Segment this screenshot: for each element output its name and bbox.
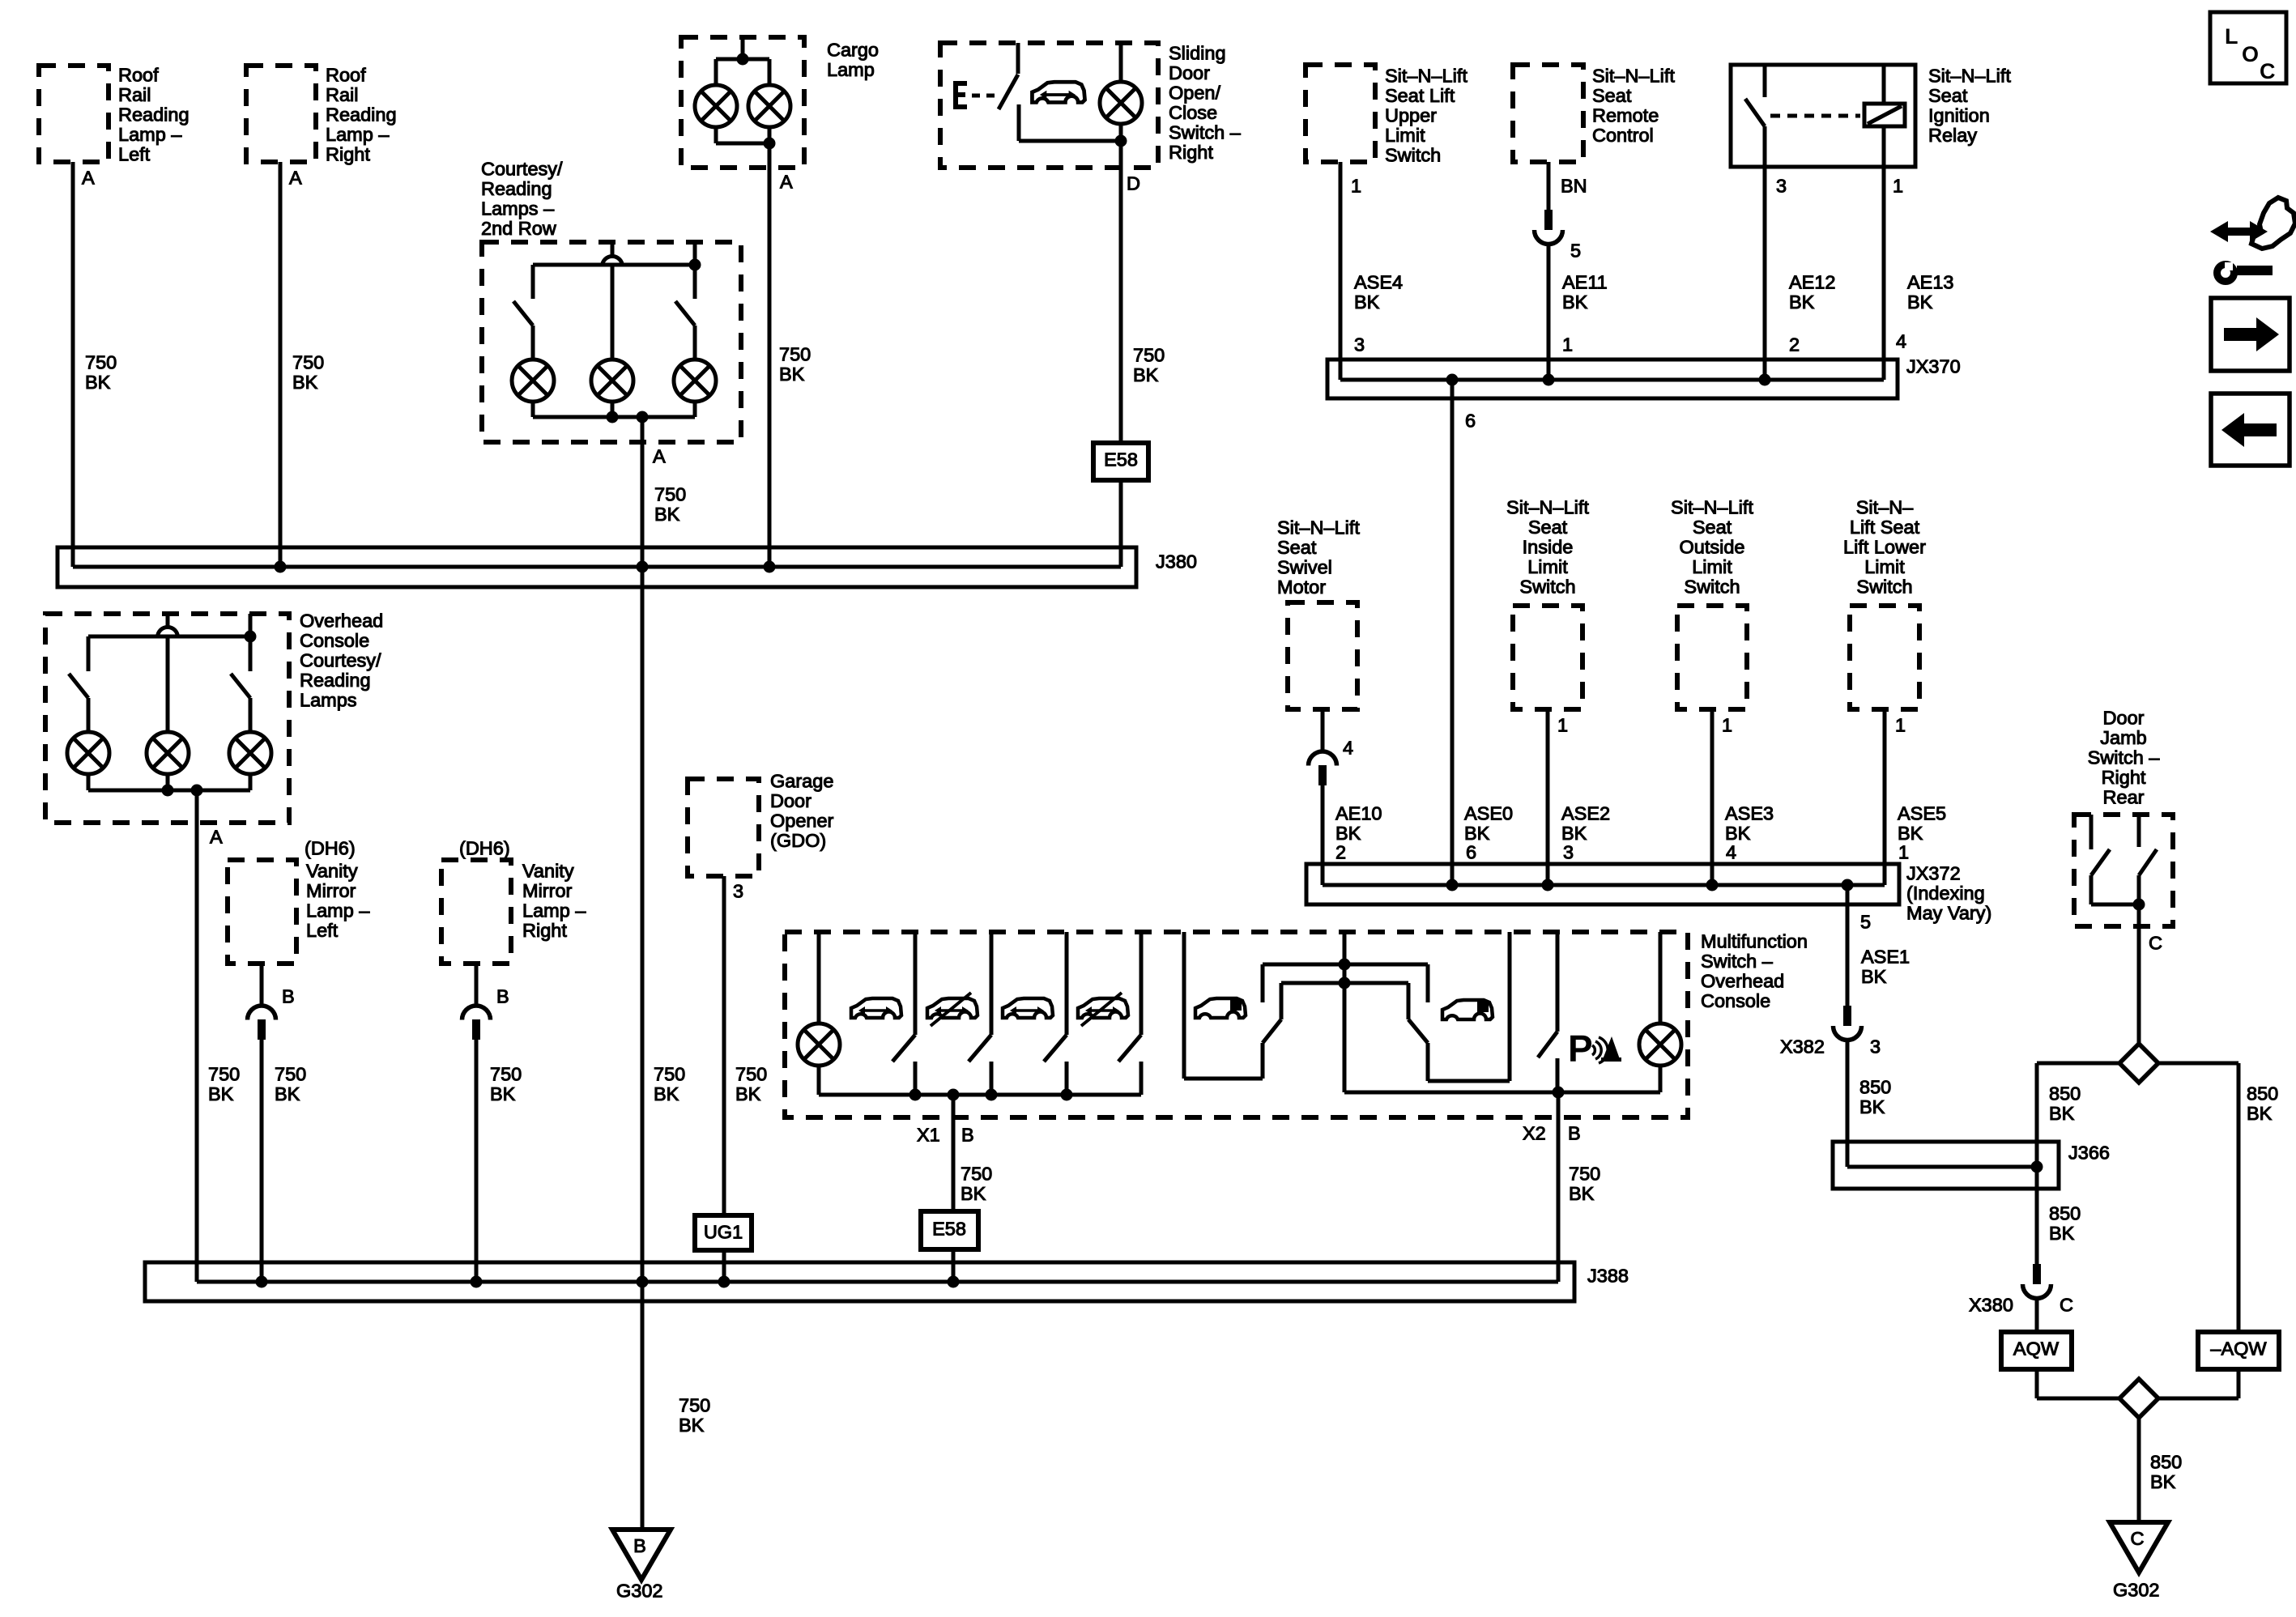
junction J388 vanity-right (471, 1276, 483, 1288)
wire overhead console A to J388 (195, 790, 199, 1282)
mf switch1 blade (892, 1035, 915, 1062)
overhead console box (45, 614, 289, 823)
connector B vanity-left (248, 1006, 276, 1040)
door jamb left bottom lead (2089, 875, 2094, 904)
wire J380 to J388 ground trunk (641, 567, 645, 1282)
connector X380 (2023, 1264, 2051, 1299)
junction J366 (2031, 1161, 2043, 1173)
roof rail reading lamp left box (39, 66, 109, 162)
2nd row center lamp lead (611, 266, 615, 360)
wire 6 JX370 to JX372 (1450, 380, 1455, 885)
2nd row lamp left bottom lead (531, 402, 535, 417)
sliding door car icon (1032, 82, 1084, 102)
sliding door switch box (940, 43, 1158, 168)
overhead console feed stub (166, 614, 170, 627)
icon prev-page arrow (2221, 413, 2277, 447)
junction mf center rail X2 (1553, 1087, 1565, 1099)
connector X382 (1834, 1006, 1862, 1040)
vanity mirror lamp right box (441, 860, 511, 964)
2nd row lamp center bottom lead (611, 402, 615, 417)
junction cargo bottom (764, 138, 776, 150)
fuse UG1 box (695, 1215, 752, 1250)
wire vanity-right to J388 (475, 1040, 479, 1282)
svg-text:1: 1 (1351, 176, 1361, 197)
junction bridge B center (1339, 977, 1351, 989)
mf switch4 blade (1118, 1035, 1141, 1062)
svg-text:Courtesy/ReadingLamps –2nd Row: Courtesy/ReadingLamps –2nd Row (481, 159, 563, 240)
cargo lamp left (695, 85, 737, 127)
mf switch1 bottom lead (914, 1062, 918, 1095)
wire AQW down (2035, 1369, 2039, 1398)
junction overhead bottom center (162, 785, 174, 797)
svg-text:2: 2 (1789, 334, 1800, 355)
svg-text:A: A (210, 827, 223, 848)
junction mf rail X1 (948, 1089, 960, 1101)
ground symbol B (612, 1530, 671, 1580)
wire vanity-left to J388 (260, 1040, 264, 1282)
wire E58 lower to J388 (952, 1249, 956, 1282)
svg-text:A: A (82, 168, 95, 189)
2nd row left switch bottom lead (531, 326, 535, 360)
wire J366 to X380 (2035, 1167, 2039, 1264)
junction mf rail sw3 (1061, 1089, 1073, 1101)
sliding door lamp bottom lead (1119, 124, 1123, 141)
swivel motor box (1288, 602, 1357, 709)
svg-text:J388: J388 (1587, 1266, 1629, 1287)
2nd row lamp right bottom lead (693, 402, 697, 417)
splice pack J388 outline (145, 1262, 1574, 1301)
junction J388 vanity-left (256, 1276, 268, 1288)
door jamb left top lead (2089, 815, 2094, 849)
wire vanity-right upper (475, 964, 479, 1006)
sliding door lamp top lead (1119, 43, 1123, 81)
svg-text:UG1: UG1 (704, 1222, 743, 1243)
2nd row right branch top lead (693, 242, 697, 299)
wire ASE3 to JX372 (1710, 709, 1715, 885)
door jamb right bottom lead (2137, 875, 2141, 904)
2nd row lamp left (512, 360, 554, 402)
wire diamond1 left branch to J366 (2035, 1063, 2039, 1167)
wire X2 to J388 (1557, 1092, 1561, 1282)
multifunction switch box (785, 932, 1688, 1117)
overhead console crossover hump (158, 628, 178, 638)
svg-text:B: B (1568, 1123, 1581, 1144)
svg-text:–AQW: –AQW (2210, 1338, 2267, 1360)
svg-text:5: 5 (1570, 240, 1581, 262)
sliding door switch blade (999, 74, 1018, 109)
wire cargo A to J380 (768, 143, 772, 567)
wire ASE5 to JX372 (1883, 709, 1887, 885)
mf right right-pole outer lead (1508, 932, 1512, 1081)
outside limit box (1677, 606, 1747, 709)
relay coil box (1864, 104, 1905, 126)
wire X1 to E58 (952, 1095, 956, 1211)
relay coil top lead (1882, 65, 1886, 104)
svg-text:3: 3 (733, 881, 743, 902)
2nd row lamp center (591, 360, 633, 402)
svg-text:1: 1 (1895, 715, 1906, 736)
mf switch4 bottom lead (1139, 1062, 1144, 1095)
junction 2nd row rail right (689, 259, 701, 271)
relay switch top lead (1763, 65, 1767, 97)
multifunction lamp left (798, 1023, 840, 1066)
fuse E58 lower box (921, 1211, 978, 1249)
junction 2nd row bottom center (607, 411, 619, 423)
wire AQW to diamond2 (2037, 1397, 2120, 1401)
wire ASE4 to JX370 (1339, 162, 1343, 380)
wire E58 to J380 (1119, 480, 1123, 567)
svg-text:X380: X380 (1969, 1295, 2013, 1316)
svg-text:G302: G302 (616, 1581, 663, 1602)
junction JX372 ASE0 (1446, 879, 1459, 891)
wire J388 to ground B (641, 1282, 645, 1530)
junction 2nd row bottom exit (637, 411, 649, 423)
svg-text:1: 1 (1893, 176, 1903, 197)
overhead left switch blade (69, 674, 88, 698)
junction JX372 ASE3 (1706, 879, 1719, 891)
overhead right switch bottom lead (249, 698, 253, 732)
mf chime switch bottom lead (1556, 1058, 1560, 1092)
wire vanity-left upper (260, 964, 264, 1006)
junction JX370 AE12 (1759, 374, 1771, 386)
mf switch3 top lead (1065, 932, 1069, 1035)
svg-text:4: 4 (1343, 738, 1353, 759)
splice pack J380 inner wire (73, 565, 1121, 569)
relay switch bottom lead (1763, 126, 1767, 167)
mf bridge B (1281, 981, 1408, 985)
svg-text:GarageDoorOpener(GDO): GarageDoorOpener(GDO) (770, 771, 834, 852)
2nd row right switch blade (675, 301, 695, 326)
icon prev-page box (2211, 394, 2290, 466)
overhead lamp right bottom lead (249, 774, 253, 790)
junction J388 trunk (637, 1276, 649, 1288)
sliding door dashed link (972, 94, 1001, 98)
cargo lamp right (748, 85, 790, 127)
connector B vanity-right (462, 1006, 491, 1040)
sliding door lamp (1100, 82, 1142, 124)
mf switch3 bottom lead (1065, 1062, 1069, 1095)
wire X380 to AQW (2035, 1299, 2039, 1332)
courtesy reading lamps 2nd row box (482, 242, 741, 442)
svg-text:J366: J366 (2068, 1143, 2110, 1164)
svg-text:JX370: JX370 (1906, 356, 1961, 377)
icon car adjust with wrench (2210, 198, 2295, 282)
cargo lamp left top lead (714, 59, 718, 85)
door jamb left blade (2091, 849, 2110, 875)
svg-text:G302: G302 (2113, 1580, 2160, 1601)
sliding door E symbol (953, 81, 967, 109)
svg-text:3: 3 (1870, 1036, 1881, 1057)
svg-text:(DH6): (DH6) (459, 838, 510, 859)
junction mf rail sw2 (986, 1089, 998, 1101)
relay coil bottom lead (1882, 126, 1886, 167)
door jamb bottom link (2091, 903, 2139, 907)
icon LOC box (2210, 12, 2286, 83)
mf right left-pole riser (1261, 1043, 1265, 1079)
junction door jamb (2133, 899, 2145, 911)
svg-text:C: C (2149, 933, 2162, 954)
wire -AQW down (2237, 1369, 2241, 1398)
svg-text:6: 6 (1466, 842, 1476, 863)
wire roof-right to J380 (279, 162, 283, 567)
svg-text:B: B (282, 986, 295, 1007)
overhead lamp left bottom lead (87, 774, 91, 790)
junction JX372 ASE2 (1542, 879, 1554, 891)
wire AE12 to JX370 (1763, 167, 1767, 380)
overhead console lamp center (147, 732, 189, 774)
wire AE10 to JX372 (1321, 785, 1325, 885)
wire AE11 to JX370 (1547, 245, 1551, 380)
mf switch2 bottom lead (990, 1062, 994, 1095)
mf switch3 blade (1044, 1035, 1067, 1062)
svg-text:1: 1 (1557, 715, 1568, 736)
mf right right-pole blade (1408, 1019, 1428, 1043)
svg-text:E58: E58 (932, 1219, 966, 1240)
relay coil diagonal (1868, 106, 1902, 124)
2nd row left switch blade (513, 301, 533, 326)
2nd row left switch top lead (531, 265, 535, 299)
svg-text:X2: X2 (1523, 1123, 1546, 1144)
mf center pole lead (1343, 932, 1347, 1092)
wire 2nd row A to J380 (641, 417, 645, 567)
svg-text:A: A (653, 446, 666, 467)
mf lamp2 top lead (1659, 932, 1663, 1023)
svg-text:2: 2 (1335, 842, 1346, 863)
2nd row crossover hump (603, 257, 623, 267)
junction mf rail sw1 (909, 1089, 922, 1101)
junction JX370 AE11 (1543, 374, 1555, 386)
wire swivel upper (1321, 709, 1325, 751)
svg-text:L: L (2225, 24, 2238, 49)
splice pack JX370 outline (1327, 360, 1898, 398)
svg-text:X382: X382 (1780, 1036, 1825, 1057)
cargo bottom rail (716, 142, 769, 146)
svg-text:P: P (1568, 1028, 1593, 1070)
mf right left-pole blade (1263, 1019, 1281, 1043)
mf chime switch top lead (1556, 932, 1560, 1032)
svg-text:A: A (289, 168, 302, 189)
connector diamond lower (2119, 1379, 2158, 1418)
wire sliding door D to E58 (1119, 141, 1123, 443)
splice pack J366 inner wire (1847, 1165, 2037, 1169)
svg-text:CargoLamp: CargoLamp (827, 40, 879, 81)
2nd row bottom rail (533, 415, 695, 419)
door jamb right top lead (2137, 815, 2141, 847)
splice pack J380 outline (58, 547, 1136, 587)
cargo lamp right bottom lead (768, 127, 772, 143)
wire ASE1 to J366 (1846, 1040, 1850, 1167)
chime icon P with sound waves (1568, 1028, 1621, 1070)
junction cargo top (737, 53, 749, 66)
svg-text:J380: J380 (1156, 551, 1197, 572)
svg-text:B: B (961, 1125, 974, 1146)
ground symbol C (2110, 1522, 2168, 1572)
wire remote BN upper (1547, 162, 1551, 210)
van icon left (1195, 998, 1246, 1018)
sliding door bottom rail (1019, 139, 1121, 143)
door jamb right blade (2139, 849, 2157, 875)
svg-text:4: 4 (1896, 331, 1906, 352)
overhead console lamp right (229, 732, 271, 774)
door jamb switch box (2074, 815, 2173, 926)
icon LOC letters (2225, 24, 2276, 83)
svg-text:1: 1 (1898, 842, 1909, 863)
junction J380 roof-right (275, 561, 287, 573)
overhead console center lamp lead (166, 637, 170, 732)
mf right left-pole outer lead (1182, 932, 1186, 1079)
car icon open-both (851, 998, 901, 1018)
wire diamond1 right branch to -AQW (2237, 1063, 2241, 1332)
vanity mirror lamp left box (228, 860, 296, 964)
junction sliding door bottom (1115, 135, 1127, 147)
mf bridge A left drop (1261, 964, 1265, 1002)
2nd row right switch bottom lead (693, 326, 697, 360)
multifunction lamp1 top lead (817, 932, 821, 1023)
sit-n-lift upper limit box (1306, 65, 1375, 162)
mf chime switch blade (1538, 1032, 1557, 1057)
overhead bottom rail (88, 789, 250, 793)
mf center rail (1344, 1091, 1660, 1095)
lower limit box (1850, 606, 1919, 709)
wire ASE2 to JX372 (1546, 709, 1550, 885)
wire diamond1 left branch horizontal (2037, 1062, 2120, 1066)
svg-text:E58: E58 (1104, 449, 1138, 470)
mf right right-pole riser (1426, 1043, 1430, 1081)
van icon right (1442, 1000, 1493, 1019)
overhead right switch blade (231, 674, 250, 698)
mf right right-pole upper riser (1407, 983, 1411, 1019)
svg-text:4: 4 (1726, 842, 1736, 863)
splice pack JX372 outline (1306, 864, 1899, 904)
wire UG1 to J388 (722, 1250, 726, 1282)
junction J388 E58 (948, 1276, 960, 1288)
junction J380 2nd row (637, 561, 649, 573)
mf bridge A right drop (1426, 964, 1430, 1002)
svg-text:C: C (2131, 1528, 2145, 1549)
svg-text:C: C (2260, 59, 2276, 83)
mf switch1 top lead (914, 932, 918, 1035)
junction JX372 ASE1 (1842, 879, 1854, 891)
overhead right branch top lead (249, 614, 253, 671)
splice pack J366 outline (1833, 1142, 2059, 1189)
svg-text:(DH6): (DH6) (305, 838, 356, 859)
svg-text:BN: BN (1561, 176, 1587, 197)
wire diamond1 right branch horizontal (2158, 1062, 2238, 1066)
connector 5 remote (1535, 210, 1563, 245)
svg-text:B: B (496, 986, 509, 1007)
mf right right-pole bottom link (1428, 1079, 1510, 1083)
car icon crossed 2 (1078, 993, 1128, 1026)
svg-text:X1: X1 (917, 1125, 940, 1146)
roof rail reading lamp right box (246, 66, 316, 162)
mf switch2 blade (969, 1035, 991, 1062)
2nd row feed stub (611, 242, 615, 256)
svg-text:D: D (1127, 173, 1140, 194)
wire GDO to UG1 (722, 876, 726, 1215)
splice pack J388 inner wire (197, 1280, 1558, 1284)
wire AE13 to JX370 (1882, 167, 1886, 380)
svg-text:B: B (633, 1535, 646, 1556)
junction overhead rail right (245, 631, 257, 643)
junction JX370 pin6 (1446, 374, 1459, 386)
wire ASE1 upper (1846, 885, 1850, 1006)
overhead left switch top lead (87, 636, 91, 671)
cargo top rail (716, 57, 769, 62)
cargo lamp right top lead (768, 59, 772, 85)
relay switch blade (1745, 99, 1765, 126)
relay box (1731, 65, 1915, 167)
garage door opener box (688, 779, 759, 876)
2nd row top rail (533, 263, 695, 267)
svg-text:O: O (2242, 42, 2259, 66)
junction overhead bottom exit (191, 785, 203, 797)
cargo lamp box (681, 37, 804, 168)
wire door jamb C to diamond (2137, 904, 2141, 1045)
icon next-page arrow (2224, 317, 2279, 351)
connector 4 swivel (1309, 751, 1337, 785)
overhead console top rail (88, 635, 250, 639)
svg-text:1: 1 (1722, 715, 1732, 736)
wire -AQW to diamond2 (2158, 1397, 2238, 1401)
svg-text:C: C (2060, 1295, 2073, 1316)
inside limit box (1513, 606, 1582, 709)
svg-text:AQW: AQW (2013, 1338, 2060, 1360)
cargo feed stub (741, 37, 745, 59)
sliding door switch bottom lead (1017, 104, 1021, 141)
icon next-page box (2211, 298, 2290, 371)
splice pack JX372 inner wire (1323, 883, 1885, 887)
overhead lamp center bottom lead (166, 774, 170, 790)
car icon crossed 1 (927, 993, 978, 1026)
svg-text:1: 1 (1562, 334, 1573, 355)
mf switch2 top lead (990, 932, 994, 1035)
svg-text:5: 5 (1860, 912, 1871, 933)
junction bridge A center (1339, 959, 1351, 971)
svg-text:3: 3 (1354, 334, 1365, 355)
mf right left-pole bottom link (1184, 1077, 1263, 1081)
sliding door switch top lead (1016, 43, 1020, 74)
svg-text:A: A (780, 172, 793, 193)
splice pack JX370 inner wire (1340, 378, 1884, 382)
cargo lamp left bottom lead (714, 127, 718, 143)
connector diamond upper (2119, 1044, 2158, 1083)
svg-text:3: 3 (1563, 842, 1574, 863)
net -AQW box (2198, 1332, 2279, 1369)
overhead left switch bottom lead (87, 698, 91, 732)
multifunction lamp1 bottom lead (817, 1066, 821, 1095)
net AQW box (2001, 1332, 2072, 1369)
fuse E58 upper box (1093, 443, 1148, 480)
wire diamond2 to ground C (2137, 1417, 2141, 1522)
multifunction lamp right (1639, 1023, 1681, 1066)
wire roof-left to J380 (71, 162, 75, 567)
2nd row lamp right (674, 360, 716, 402)
mf switch4 top lead (1139, 932, 1144, 1035)
junction J388 UG1 (718, 1276, 731, 1288)
junction J380 cargo (764, 561, 776, 573)
svg-text:6: 6 (1465, 411, 1476, 432)
relay actuation dashed line (1770, 114, 1860, 118)
car icon open-2 (1003, 998, 1053, 1018)
multifunction left rail (819, 1093, 1141, 1097)
overhead console lamp left (67, 732, 109, 774)
mf right left-pole upper riser (1280, 983, 1284, 1019)
svg-text:3: 3 (1776, 176, 1787, 197)
sit-n-lift remote box (1513, 65, 1583, 162)
mf bridge A (1263, 963, 1428, 967)
mf lamp2 bottom lead (1659, 1066, 1663, 1092)
